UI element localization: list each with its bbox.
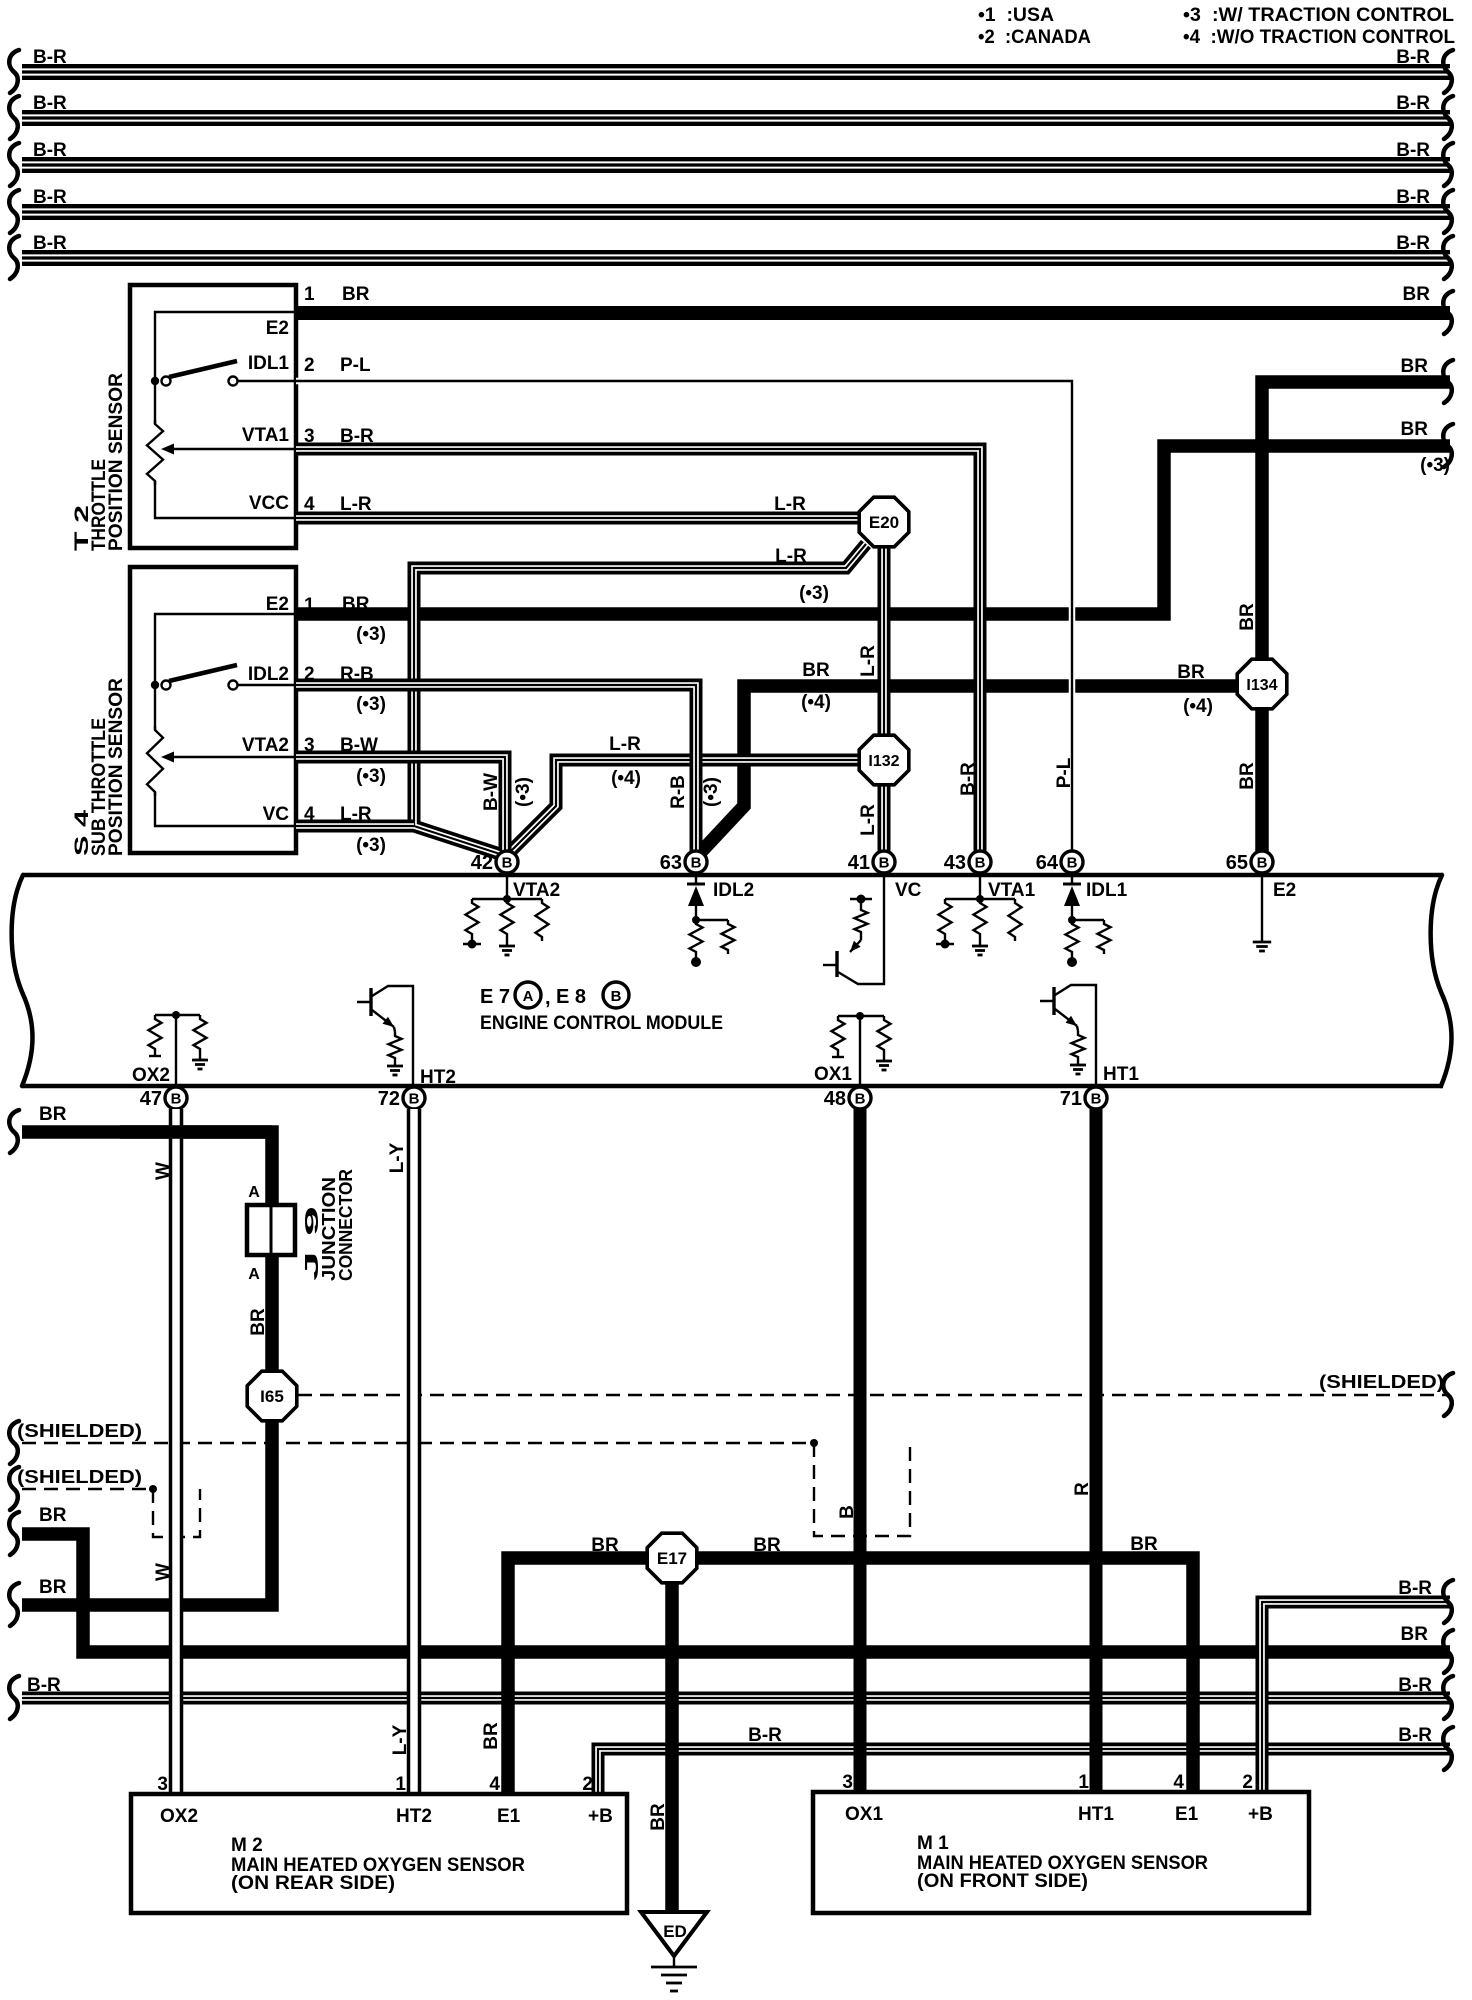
svg-text:(SHIELDED): (SHIELDED) bbox=[17, 1421, 142, 1441]
svg-text:M 2: M 2 bbox=[231, 1835, 263, 1856]
svg-text:(SHIELDED): (SHIELDED) bbox=[1319, 1372, 1444, 1392]
svg-text:ENGINE CONTROL MODULE: ENGINE CONTROL MODULE bbox=[480, 1013, 723, 1034]
svg-text:B-R: B-R bbox=[33, 93, 67, 114]
shielded dashed box around W wire bbox=[22, 1489, 200, 1537]
wire L-R from I132 to ECM 41 bbox=[878, 782, 891, 851]
svg-text:R-B: R-B bbox=[668, 775, 689, 809]
svg-text:BR: BR bbox=[648, 1803, 669, 1831]
svg-text:B-R: B-R bbox=[1398, 1675, 1432, 1696]
svg-text:BR: BR bbox=[802, 660, 830, 681]
svg-text:L-Y: L-Y bbox=[390, 1724, 411, 1755]
wire B-R lower bus bbox=[22, 1692, 1450, 1705]
svg-text:B: B bbox=[611, 988, 622, 1005]
svg-text:1: 1 bbox=[1078, 1772, 1089, 1793]
svg-text:3: 3 bbox=[157, 1774, 168, 1795]
ECM HT2 internal transistor bbox=[357, 986, 413, 1086]
svg-text:42: 42 bbox=[471, 852, 493, 874]
ECM OX1 internal resistors bbox=[838, 1016, 884, 1087]
svg-text:1: 1 bbox=[395, 1774, 406, 1795]
svg-text:W: W bbox=[153, 1563, 174, 1581]
svg-text:+B: +B bbox=[588, 1806, 613, 1827]
svg-text:(•3): (•3) bbox=[1420, 455, 1450, 476]
ECM pin 63 internal diode and resistors bbox=[687, 883, 705, 886]
svg-text:HT1: HT1 bbox=[1078, 1804, 1114, 1825]
wire R from ECM 71 to M1 HT1 bbox=[1090, 1109, 1103, 1792]
svg-text:B-R: B-R bbox=[1398, 1725, 1432, 1746]
ECM pin 65 internal ground bbox=[1261, 875, 1263, 942]
svg-text:ED: ED bbox=[663, 1922, 687, 1941]
svg-text:BR: BR bbox=[248, 1308, 269, 1336]
engine control module box edges bbox=[22, 875, 1443, 1086]
svg-text:,: , bbox=[545, 987, 551, 1009]
svg-text:BR: BR bbox=[39, 1505, 67, 1526]
svg-text:B-R: B-R bbox=[1396, 187, 1430, 208]
svg-text:BR: BR bbox=[39, 1577, 67, 1598]
wire L-R from T2 VCC to E20 bbox=[296, 512, 870, 525]
svg-text:•1 :USA: •1 :USA bbox=[978, 5, 1054, 26]
svg-text:B-R: B-R bbox=[33, 187, 67, 208]
svg-text:OX1: OX1 bbox=[845, 1804, 883, 1825]
svg-text:A: A bbox=[248, 1266, 260, 1283]
T2 wiper arrow bbox=[167, 448, 296, 450]
svg-text:2: 2 bbox=[304, 355, 315, 376]
svg-text:(SHIELDED): (SHIELDED) bbox=[17, 1467, 142, 1487]
svg-text:B-W: B-W bbox=[481, 773, 502, 811]
svg-text:(•3): (•3) bbox=[356, 835, 386, 856]
wire B from ECM 48 to M1 OX1 bbox=[854, 1109, 867, 1792]
svg-text:VCC: VCC bbox=[249, 493, 289, 514]
svg-text:•3 :W/ TRACTION CONTROL: •3 :W/ TRACTION CONTROL bbox=[1183, 5, 1454, 26]
svg-text:71: 71 bbox=[1060, 1088, 1082, 1110]
wire BR from T2 E2 to right bbox=[296, 306, 1450, 320]
svg-text:48: 48 bbox=[824, 1088, 846, 1110]
svg-text:B: B bbox=[1257, 855, 1268, 872]
svg-text:E2: E2 bbox=[266, 594, 289, 615]
svg-text:A: A bbox=[523, 988, 534, 1005]
connector I65 bbox=[247, 1371, 297, 1421]
svg-text:B-R: B-R bbox=[33, 47, 67, 68]
svg-text:IDL1: IDL1 bbox=[1086, 880, 1128, 901]
sub throttle position sensor S4 box bbox=[130, 567, 296, 853]
svg-text:VTA2: VTA2 bbox=[513, 880, 560, 901]
wire BR (*4) from I134 to ECM 63 bbox=[700, 686, 1240, 853]
svg-text:E 7: E 7 bbox=[480, 986, 510, 1008]
wire B-R from M1 +B to right bbox=[1262, 1602, 1450, 1792]
svg-text:E17: E17 bbox=[657, 1549, 687, 1568]
svg-text:BR: BR bbox=[342, 284, 370, 305]
svg-text:L-R: L-R bbox=[774, 494, 806, 515]
wire W from ECM 47 to M2 OX2 bbox=[169, 1109, 184, 1794]
svg-text:BR: BR bbox=[1401, 1624, 1429, 1645]
ECM pin 42 internal resistors bbox=[472, 875, 542, 899]
wire B-R from M2 +B to right bbox=[598, 1749, 1450, 1794]
svg-text:P-L: P-L bbox=[340, 355, 371, 376]
svg-text:L-R: L-R bbox=[775, 546, 807, 567]
throttle position sensor T2 box bbox=[130, 285, 296, 548]
svg-text:BR: BR bbox=[481, 1722, 502, 1750]
ECM pin 43 internal resistors bbox=[945, 875, 1015, 899]
wire B-W from S4 VTA2 to ECM 42 bbox=[296, 757, 505, 851]
svg-text:E20: E20 bbox=[869, 513, 899, 532]
S4 internal wiring bbox=[155, 614, 296, 826]
T2 potentiometer bbox=[147, 420, 163, 485]
wire BR from S4 E2 up and right (*3) bbox=[296, 446, 1450, 614]
ECM HT1 internal transistor bbox=[1040, 985, 1096, 1086]
svg-text:E 8: E 8 bbox=[556, 986, 586, 1008]
svg-text:B: B bbox=[1067, 855, 1078, 872]
wire BR E17 bus to E1 pins bbox=[508, 1558, 1193, 1794]
svg-text:(•4): (•4) bbox=[611, 768, 641, 789]
svg-text:72: 72 bbox=[378, 1088, 400, 1110]
svg-text:E1: E1 bbox=[1175, 1804, 1199, 1825]
svg-text:(•3): (•3) bbox=[799, 583, 829, 604]
svg-text:OX1: OX1 bbox=[814, 1064, 852, 1085]
svg-text:•4 :W/O TRACTION CONTROL: •4 :W/O TRACTION CONTROL bbox=[1183, 27, 1455, 48]
ECM OX2 internal resistors bbox=[155, 1015, 200, 1086]
ECM pin 63 bbox=[660, 851, 707, 874]
svg-text:B: B bbox=[502, 855, 513, 872]
svg-text:HT1: HT1 bbox=[1103, 1064, 1139, 1085]
wire B-R bus 2 bbox=[22, 115, 1450, 120]
wire BR ground bus lower bbox=[22, 1534, 1450, 1652]
ground ED bbox=[641, 1912, 707, 1956]
svg-text:B: B bbox=[855, 1091, 866, 1108]
wire L-R (*3) from E20 via S4 VC to ECM 42 bbox=[414, 544, 866, 855]
svg-text:(ON REAR SIDE): (ON REAR SIDE) bbox=[231, 1873, 395, 1894]
wire R-B from S4 IDL2 to ECM 63 bbox=[296, 685, 696, 851]
svg-text:64: 64 bbox=[1036, 852, 1059, 874]
svg-text:L-R: L-R bbox=[858, 645, 879, 677]
ECM pin 41 internal transistor bbox=[838, 875, 884, 984]
wire P-L from T2 IDL1 to ECM 64 bbox=[296, 381, 1072, 851]
svg-text:BR: BR bbox=[591, 1535, 619, 1556]
ECM right break edge bbox=[1431, 875, 1452, 1086]
svg-text:L-R: L-R bbox=[858, 804, 879, 836]
svg-text:VTA2: VTA2 bbox=[242, 735, 289, 756]
svg-text:OX2: OX2 bbox=[132, 1065, 170, 1086]
main heated oxygen sensor M2 box bbox=[131, 1794, 627, 1913]
svg-text:HT2: HT2 bbox=[396, 1806, 432, 1827]
svg-text:B-R: B-R bbox=[1398, 1578, 1432, 1599]
svg-text:B-R: B-R bbox=[1396, 140, 1430, 161]
svg-text:M 1: M 1 bbox=[917, 1833, 949, 1854]
svg-text:4: 4 bbox=[1173, 1772, 1184, 1793]
svg-text:B: B bbox=[975, 855, 986, 872]
svg-text:VTA1: VTA1 bbox=[242, 425, 290, 446]
svg-text:I65: I65 bbox=[260, 1387, 284, 1406]
wire BR segment over W bbox=[120, 1125, 272, 1139]
ECM pin 64 internal diode and resistors bbox=[1063, 883, 1081, 886]
wire L-R from E20 to I132 bbox=[878, 542, 891, 738]
svg-text:IDL1: IDL1 bbox=[248, 353, 290, 374]
shielded dashed box around B wire bbox=[22, 1443, 910, 1536]
svg-text:W: W bbox=[153, 1162, 174, 1180]
ECM pin 72 bbox=[378, 1087, 425, 1110]
svg-text:(•4): (•4) bbox=[801, 692, 831, 713]
svg-text:BR: BR bbox=[1177, 662, 1205, 683]
svg-text:B-R: B-R bbox=[748, 1725, 782, 1746]
T2 switch IDL1 bbox=[151, 361, 296, 386]
svg-text:R: R bbox=[1072, 1482, 1093, 1496]
svg-text:(•3): (•3) bbox=[701, 777, 722, 807]
svg-text:63: 63 bbox=[660, 852, 682, 874]
T2 internal wiring bbox=[155, 312, 296, 518]
junction connector J9 box bbox=[247, 1205, 295, 1255]
svg-text:VC: VC bbox=[263, 804, 290, 825]
svg-text:B-R: B-R bbox=[1396, 47, 1430, 68]
svg-text:(ON FRONT SIDE): (ON FRONT SIDE) bbox=[917, 1871, 1088, 1892]
ECM left break edge bbox=[12, 875, 33, 1086]
svg-text:E2: E2 bbox=[1273, 880, 1296, 901]
S4 switch IDL2 bbox=[151, 665, 296, 690]
ECM pin 71 bbox=[1060, 1087, 1107, 1110]
svg-text:E1: E1 bbox=[497, 1806, 521, 1827]
svg-text:VC: VC bbox=[895, 880, 922, 901]
svg-text:BR: BR bbox=[753, 1535, 781, 1556]
S4 wiper arrow bbox=[167, 756, 296, 758]
svg-text:P-L: P-L bbox=[1054, 757, 1075, 788]
svg-text:B-R: B-R bbox=[1396, 233, 1430, 254]
svg-text:B-R: B-R bbox=[33, 233, 67, 254]
ECM pin 42 bbox=[471, 851, 518, 874]
svg-text:BR: BR bbox=[1237, 603, 1258, 631]
svg-text:L-R: L-R bbox=[609, 734, 641, 755]
ECM pin 43 bbox=[944, 851, 991, 874]
svg-text:1: 1 bbox=[304, 284, 315, 305]
svg-text:B: B bbox=[691, 855, 702, 872]
svg-text:VTA1: VTA1 bbox=[988, 880, 1036, 901]
svg-text:IDL2: IDL2 bbox=[248, 664, 289, 685]
svg-text:41: 41 bbox=[848, 852, 870, 874]
main heated oxygen sensor M1 box bbox=[813, 1792, 1309, 1913]
svg-text:IDL2: IDL2 bbox=[713, 880, 754, 901]
S4 potentiometer bbox=[147, 726, 163, 796]
svg-text:3: 3 bbox=[842, 1772, 853, 1793]
svg-text:E2: E2 bbox=[266, 318, 289, 339]
svg-text:B: B bbox=[837, 1505, 858, 1519]
svg-text:•2 :CANADA: •2 :CANADA bbox=[978, 27, 1091, 48]
svg-text:A: A bbox=[248, 1184, 260, 1201]
svg-text:47: 47 bbox=[140, 1088, 162, 1110]
ECM pin 65 bbox=[1226, 851, 1273, 874]
svg-text:BR: BR bbox=[1237, 762, 1258, 790]
wire B-R bus 5 bbox=[22, 255, 1450, 260]
svg-text:HT2: HT2 bbox=[420, 1067, 456, 1088]
svg-text:B: B bbox=[1091, 1091, 1102, 1108]
wire BR from E17 to ED ground bbox=[665, 1570, 679, 1911]
svg-text:(•4): (•4) bbox=[1183, 696, 1213, 717]
svg-text:BR: BR bbox=[39, 1104, 67, 1125]
wire BR from junction connector J9 branch bbox=[22, 1132, 272, 1605]
ECM pin 41 bbox=[848, 851, 895, 874]
svg-text:BR: BR bbox=[1401, 419, 1429, 440]
shielded dashed line right bbox=[298, 1394, 1450, 1396]
svg-text:B-R: B-R bbox=[27, 1675, 61, 1696]
ECM pin 64 bbox=[1036, 851, 1083, 874]
svg-text:B: B bbox=[879, 855, 890, 872]
wire L-R (*4) from I132 to ECM 42 bbox=[509, 760, 862, 853]
wire B-R bus 1 bbox=[22, 69, 1450, 74]
svg-text:BR: BR bbox=[1401, 356, 1429, 377]
svg-text:(•3): (•3) bbox=[356, 694, 386, 715]
svg-text:(•3): (•3) bbox=[513, 777, 534, 807]
svg-text:I134: I134 bbox=[1246, 677, 1277, 694]
svg-text:2: 2 bbox=[1242, 1772, 1253, 1793]
connector I134 bbox=[1237, 659, 1287, 709]
svg-text:(•3): (•3) bbox=[356, 766, 386, 787]
svg-text:+B: +B bbox=[1248, 1804, 1273, 1825]
svg-text:4: 4 bbox=[489, 1774, 500, 1795]
svg-text:OX2: OX2 bbox=[160, 1806, 198, 1827]
ECM pin 48 bbox=[824, 1087, 871, 1110]
svg-text:B-R: B-R bbox=[1396, 93, 1430, 114]
svg-text:BR: BR bbox=[1130, 1534, 1158, 1555]
svg-text:L-Y: L-Y bbox=[387, 1142, 408, 1173]
svg-text:B-R: B-R bbox=[33, 140, 67, 161]
svg-text:B: B bbox=[409, 1091, 420, 1108]
wire BR right vertical to ECM 65 via I134 bbox=[1262, 382, 1450, 851]
svg-text:B-R: B-R bbox=[958, 762, 979, 796]
svg-text:B: B bbox=[171, 1091, 182, 1108]
connector E17 bbox=[647, 1533, 697, 1583]
svg-text:BR: BR bbox=[1403, 284, 1431, 305]
wire L-Y from ECM 72 to M2 HT2 bbox=[407, 1109, 422, 1794]
connector I132 bbox=[859, 735, 909, 785]
svg-text:(•3): (•3) bbox=[356, 624, 386, 645]
svg-text:43: 43 bbox=[944, 852, 966, 874]
wire B-R bus 4 bbox=[22, 209, 1450, 214]
wire B-R from T2 VTA1 to ECM 43 bbox=[296, 449, 980, 851]
connector E20 bbox=[859, 497, 909, 547]
svg-text:65: 65 bbox=[1226, 852, 1248, 874]
wire B-R bus 3 bbox=[22, 162, 1450, 167]
svg-text:2: 2 bbox=[582, 1774, 593, 1795]
ECM pin 47 bbox=[140, 1087, 187, 1110]
svg-text:I132: I132 bbox=[868, 753, 899, 770]
